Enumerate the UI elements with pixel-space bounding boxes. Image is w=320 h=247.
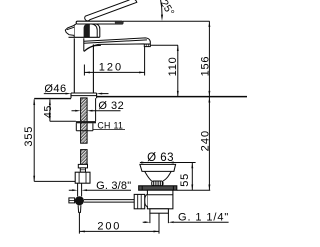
dim 156 line [208,21,210,96]
svg-text:240: 240 [199,130,211,152]
svg-text:Ø 63: Ø 63 [147,152,174,164]
washer under counter [76,121,96,123]
lever blade tip (dark) [115,21,124,24]
dim 110 top extension [151,44,179,46]
handle nose [65,25,74,35]
base flange [71,92,97,94]
deck line right [97,96,247,98]
dim 45 line [49,99,51,121]
svg-text:Ø46: Ø46 [44,83,66,95]
spout root edge [83,38,85,51]
dim Ø46 leader [44,93,66,95]
hose ferrule [78,164,87,168]
svg-text:156: 156 [199,56,211,77]
horizontal pop-up rod [84,200,134,203]
dim 355 line [33,99,35,181]
seam between handle base and body [69,36,100,38]
drain Ø63 dim line [140,162,196,164]
drain tailpipe [150,209,169,213]
lever handle closed (horizontal blade) [76,21,123,24]
collar line right of shank [95,98,97,121]
rod lower tip [78,205,81,212]
svg-text:Ø 32: Ø 32 [98,100,124,112]
25deg angle arc [161,0,162,17]
dim 240 line [208,97,210,190]
dim Ø32 leader [72,110,121,112]
spout top edges [84,38,150,44]
faucet body column [73,38,75,93]
drain flange [139,186,177,190]
drain plug knurled knob [152,181,163,186]
dim 355 bottom extension [34,180,75,182]
dim G3/8 leader [69,189,131,191]
dim 200 line [79,230,159,232]
handle base (cartridge housing) [74,24,76,37]
spout underside and swoosh [84,44,150,52]
hose neck [80,168,85,172]
dim 120 extensions [84,47,144,76]
svg-text:355: 355 [23,126,35,147]
threaded shank (hatched) upper [81,98,88,143]
svg-text:G. 1 1/4": G. 1 1/4" [178,211,229,223]
dim 55/240 bottom extension [177,189,210,191]
dim 120 line [84,71,144,73]
flex hose braided (hatched) [81,150,88,165]
svg-text:55: 55 [179,173,191,187]
svg-text:45: 45 [42,105,54,118]
dim G1 1/4 extensions [150,213,169,223]
dim 110 line [177,45,179,96]
handle front heavy edge [84,24,90,37]
tube below nut [78,183,82,196]
ball joint dome on drain [145,194,148,206]
drain rod nut [134,194,145,208]
dim 200 extensions [79,213,159,234]
drain body [147,190,173,209]
svg-text:110: 110 [167,56,179,76]
svg-text:CH 11: CH 11 [97,121,123,131]
lever handle open 25deg [85,0,137,21]
svg-text:120: 120 [99,62,123,74]
dim 45 extension [50,120,76,122]
drain plug bell [145,171,172,181]
reference line at handle top [123,20,210,22]
rod clamp [69,198,75,203]
svg-text:G. 3/8": G. 3/8" [96,180,131,192]
fixing nut CH11 [76,123,93,130]
dim G1 1/4 leader [143,221,229,223]
drain plug disc [140,164,176,171]
svg-text:200: 200 [97,221,121,233]
dim 55 line [191,163,193,191]
deck line left [34,98,71,100]
hose hex nut G3/8 [75,172,90,183]
pop-up rod ball joint [75,196,84,205]
aerator [144,44,150,47]
